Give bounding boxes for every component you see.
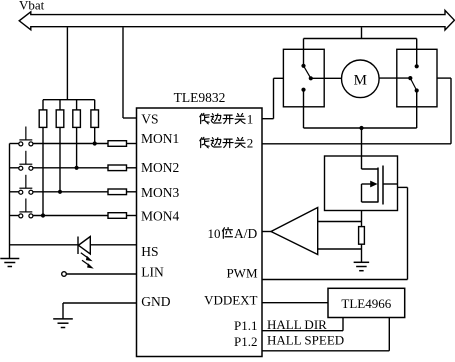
wire switch common rail	[9, 144, 11, 259]
svg-text:VS: VS	[141, 112, 158, 127]
svg-text:MON1: MON1	[141, 131, 179, 146]
resistor R3 (pull-up col 3)	[76, 100, 78, 110]
switch S3 (pushbutton)	[19, 190, 23, 194]
wire S2 to resistor	[33, 167, 108, 169]
wire resistor to MON1 pin	[127, 143, 137, 145]
wire A1 - input	[318, 248, 362, 250]
resistor R2 (pull-up col 2)	[59, 100, 61, 110]
svg-text:A/D: A/D	[234, 226, 258, 241]
resistor R9 (sense)	[359, 227, 365, 245]
svg-text:MON4: MON4	[141, 208, 180, 223]
wire R1 to MON4 row	[42, 127, 44, 215]
wire rail to switch S1	[10, 143, 20, 145]
wire H-bridge bottom rail	[304, 127, 417, 129]
junction node col4/MON1	[93, 141, 97, 145]
wire HS line	[10, 244, 79, 246]
switch module SW-A (left half-bridge)	[283, 49, 324, 107]
connector LIN terminal	[62, 272, 67, 277]
wire Q1 source down	[361, 211, 363, 227]
svg-text:10: 10	[208, 226, 221, 241]
wire S3 to resistor	[33, 191, 108, 193]
wire low-side-switch-2 pin to SW-B	[262, 143, 451, 145]
wire Vbat to resistor rail	[66, 27, 68, 99]
junction node bottom rail / Q1 drain	[359, 126, 363, 130]
motor M	[342, 60, 380, 98]
ground G1 (switch rail)	[0, 258, 19, 260]
svg-text:MON2: MON2	[141, 160, 179, 175]
op-amp U2 TLE4966 body	[328, 288, 405, 317]
resistor R7 (series MON3)	[108, 189, 127, 195]
svg-text:P1.1: P1.1	[234, 318, 257, 333]
switch module SW-B (right half-bridge)	[397, 49, 437, 107]
svg-text:Vbat: Vbat	[19, 0, 45, 13]
wire motor to SW-B	[379, 77, 410, 79]
svg-text:LIN: LIN	[141, 265, 164, 280]
wire R2 to MON3 row	[59, 127, 61, 191]
ground G3 (sense)	[354, 261, 370, 263]
svg-text:VDDEXT: VDDEXT	[204, 293, 257, 308]
svg-text:TLE9832: TLE9832	[174, 90, 226, 105]
pin label low-side-switch-1	[200, 113, 209, 124]
svg-text:HALL DIR: HALL DIR	[267, 317, 327, 332]
wire PWM pin	[262, 279, 408, 281]
wire rail to switch S3	[10, 191, 20, 193]
resistor R1 (pull-up col 1)	[42, 100, 44, 110]
wire rail to switch S2	[10, 167, 20, 169]
op-amp U1 TLE9832 body	[137, 108, 263, 357]
junction node col2/MON3	[58, 190, 62, 194]
wire GND pin	[63, 302, 137, 304]
wire A1 out to A/D pin	[262, 231, 272, 233]
wire low-side-switch-1 pin to SW-A	[262, 118, 274, 120]
wire Q1 gate out	[383, 183, 398, 185]
wire A1 + input	[318, 221, 362, 223]
op-amp A1 (A/D buffer)	[271, 208, 318, 255]
wire LIN	[66, 273, 136, 275]
resistor R4 (pull-up col 4)	[94, 100, 96, 110]
switch S4 (pushbutton)	[19, 214, 23, 218]
junction node col1/MON4	[41, 213, 45, 217]
junction node col3/MON2	[75, 166, 79, 170]
wire S1 to resistor	[33, 143, 108, 145]
switch S1 (pushbutton)	[19, 142, 23, 146]
transistor Q1 (NMOS)	[361, 156, 363, 169]
Vbat bus double-arrow	[19, 10, 454, 30]
svg-text:M: M	[354, 72, 367, 88]
wire resistor to MON4 pin	[127, 215, 137, 217]
svg-text:2: 2	[247, 135, 254, 150]
resistor R8 (series MON4)	[108, 213, 127, 219]
wire SW-A to motor	[311, 77, 342, 79]
svg-text:1: 1	[247, 111, 254, 126]
svg-text:HALL SPEED: HALL SPEED	[267, 333, 344, 348]
svg-text:P1.2: P1.2	[234, 334, 257, 349]
svg-text:TLE4966: TLE4966	[341, 296, 391, 311]
svg-text:GND: GND	[141, 294, 170, 309]
pin label low-side-switch-2	[200, 137, 209, 148]
wire S4 to resistor	[33, 215, 108, 217]
switch S2 (pushbutton)	[19, 166, 23, 170]
wire Vbat to H-bridge	[361, 27, 363, 38]
LED D1 emission arrows	[81, 253, 89, 259]
wire resistor to MON3 pin	[127, 191, 137, 193]
wire resistor top rail	[43, 99, 95, 101]
wire P1.2 / HALL SPEED	[262, 350, 389, 352]
wire R9 to ground	[361, 244, 363, 262]
LED D1	[77, 237, 79, 255]
wire R3 to MON2 row	[76, 127, 78, 167]
wire resistor to MON2 pin	[127, 167, 137, 169]
wire R4 to MON1 row	[94, 127, 96, 143]
wire VDDEXT pin	[262, 302, 328, 304]
wire rail to switch S4	[10, 215, 20, 217]
wire Vbat to VS	[122, 27, 124, 118]
transistor Q1 module box	[325, 156, 398, 211]
wire P1.1 / HALL DIR	[262, 330, 343, 332]
wire bottom rail to Q1 drain	[361, 128, 363, 156]
svg-text:PWM: PWM	[226, 266, 258, 281]
ground G2 (GND pin)	[53, 318, 73, 320]
resistor R5 (series MON1)	[108, 141, 127, 147]
svg-text:MON3: MON3	[141, 185, 180, 200]
resistor R6 (series MON2)	[108, 165, 127, 171]
svg-text:HS: HS	[141, 244, 158, 259]
